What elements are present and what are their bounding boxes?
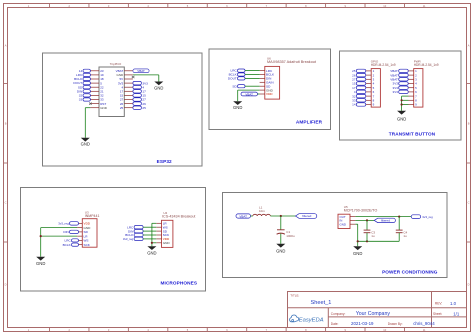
wire U5 GND to ground rail [355, 224, 399, 246]
ESP32 left net flags (GPIO nets) [73, 69, 90, 102]
wire U1 GND pin to ground (right) [133, 75, 159, 82]
svg-text:10m: 10m [259, 209, 265, 213]
svg-text:GND: GND [100, 106, 108, 110]
svg-text:chris_9044: chris_9044 [413, 321, 435, 326]
svg-text:MAX98357 Adafruit Breakout: MAX98357 Adafruit Breakout [267, 60, 317, 64]
U1 TinyPICO left pins and pin names [90, 69, 107, 110]
svg-text:INMP441: INMP441 [85, 214, 100, 218]
svg-text:A: A [5, 44, 7, 48]
svg-text:DIN: DIN [63, 230, 68, 234]
module U1 TinyPICO body [99, 62, 124, 116]
net flags LRC BCLK DOUT to U6 [228, 69, 260, 81]
svg-text:C: C [468, 201, 470, 205]
microphone U4 ICS-43434 Breakout body [162, 211, 196, 247]
MICROPHONES block outline [21, 188, 206, 292]
junction on J2 pin 9 wire [401, 103, 403, 105]
svg-text:filtered: filtered [381, 219, 390, 223]
svg-text:VBAT: VBAT [137, 69, 145, 73]
svg-text:3v3_reg: 3v3_reg [123, 237, 134, 241]
wire U5 IN to filtered flag [355, 219, 374, 221]
wire U6 GND pin to ground [238, 90, 260, 101]
ground symbol below J2 [397, 111, 406, 115]
net flags LRC DIN BCLK 3v3_reg to U4 [123, 225, 156, 241]
svg-text:C: C [5, 201, 7, 205]
svg-text:EasyEDA: EasyEDA [299, 318, 324, 324]
ESP32 right GPIO net flags [133, 85, 146, 110]
U4 pins and pin names [156, 222, 170, 246]
junction U3 LR/GND wire [40, 235, 42, 237]
svg-text:VBAT: VBAT [239, 214, 247, 218]
svg-text:ICS-43434 Breakout: ICS-43434 Breakout [162, 215, 195, 219]
net flag VBAT on U1 pin VBAT [133, 69, 149, 73]
junction U4 GND wire [151, 242, 153, 244]
svg-text:D: D [5, 283, 7, 287]
svg-text:25: 25 [142, 106, 146, 110]
wire U3 GND and LR pins to ground [41, 228, 77, 257]
EasyEDA logo [290, 315, 324, 324]
svg-text:Sheet:: Sheet: [433, 312, 442, 316]
svg-text:ESP32: ESP32 [157, 159, 172, 164]
header J2 PWR HDR-M-2.54_1x9 [414, 59, 439, 107]
net flag DIN to U3 SD [63, 230, 78, 234]
ground symbol below U5 [353, 246, 362, 250]
svg-text:1u: 1u [371, 234, 375, 238]
net flag SD to U6 [232, 84, 259, 88]
svg-text:3V3: 3V3 [393, 90, 399, 94]
svg-text:Date:: Date: [331, 322, 339, 326]
capacitor C3 1u [364, 220, 376, 241]
svg-text:1u: 1u [403, 234, 407, 238]
net flag VBAT to U6 VDD [241, 92, 260, 96]
svg-text:POWER CONDITIONING: POWER CONDITIONING [382, 269, 438, 274]
ground symbol below C1 [276, 244, 285, 248]
svg-text:2021-03-19: 2021-03-19 [351, 321, 374, 326]
svg-text:HDR-M-2.54_1x9: HDR-M-2.54_1x9 [414, 63, 439, 67]
svg-text:VDD: VDD [266, 92, 273, 96]
junction ground rail left [357, 240, 359, 242]
svg-text:B: B [468, 121, 470, 125]
net flag filtered (after L1) [296, 214, 317, 219]
net flag 3v3_reg output [411, 215, 433, 219]
svg-text:GND: GND [163, 241, 171, 245]
svg-text:SCK: SCK [84, 243, 91, 247]
junction at C3 top [366, 219, 368, 221]
junction at C1 top [280, 215, 282, 217]
ground symbol below U4 [147, 246, 156, 250]
wire U5 OUT to 3v3_reg flag [355, 216, 411, 218]
svg-text:Drawn By:: Drawn By: [388, 322, 403, 326]
ground symbol below U3 [36, 257, 45, 261]
J2 PWR net flags VBAT and 3V3 [390, 69, 408, 94]
svg-text:Company:: Company: [331, 312, 346, 316]
ESP32 module block outline [43, 53, 203, 166]
svg-text:D: D [468, 283, 470, 287]
POWER CONDITIONING block outline [223, 193, 448, 278]
svg-text:GND: GND [36, 261, 45, 266]
svg-text:GND: GND [353, 251, 362, 256]
svg-text:REV:: REV: [435, 302, 442, 306]
U5 pins and pin names [340, 215, 356, 227]
svg-text:1.0: 1.0 [450, 301, 457, 306]
net flag LRC to U3 WS [64, 239, 78, 243]
svg-text:GND: GND [233, 105, 242, 110]
svg-text:33: 33 [79, 98, 83, 102]
svg-text:TinyPICO: TinyPICO [110, 62, 122, 66]
J1 GPIO net flags [352, 69, 366, 107]
wires J2 pins 7-9 to ground [402, 96, 409, 111]
company field [331, 311, 391, 317]
inductor L1 10m [253, 206, 271, 217]
svg-text:SD: SD [232, 84, 237, 88]
title block frame [288, 292, 467, 328]
J1 GPIO pins 1-9 [366, 69, 375, 107]
svg-text:VBAT: VBAT [245, 92, 253, 96]
no-connect mark on U1 RST pin [89, 103, 91, 105]
net flag 3V3 on U1 [133, 81, 148, 85]
date and drawn by fields [331, 321, 435, 326]
svg-text:filtered: filtered [302, 214, 311, 218]
wire L1 to filtered net [270, 215, 295, 217]
svg-text:25: 25 [120, 106, 124, 110]
microphone U3 INMP441 body [82, 211, 99, 248]
svg-text:Sheet_1: Sheet_1 [311, 300, 332, 306]
svg-text:1/1: 1/1 [453, 311, 460, 316]
ground symbol right of U1 [154, 82, 163, 86]
svg-text:BCLK: BCLK [63, 243, 72, 247]
regulator U5 MCP1700-3002E/TO body [338, 205, 377, 229]
U3 pins and pin names [77, 222, 91, 247]
no-connect mark on U1 5V pin [132, 76, 135, 78]
junction on J2 pin 8 wire [401, 99, 403, 101]
svg-text:A: A [468, 44, 470, 48]
AMPLIFIER block outline [209, 49, 331, 130]
net flag 3v3_reg to U3 VDD [58, 222, 78, 226]
TRANSMIT BUTTON block outline [340, 51, 462, 140]
svg-text:3v3_reg: 3v3_reg [422, 215, 433, 219]
ground symbol below U1 [81, 138, 90, 142]
amplifier U6 MAX98357 Adafruit Breakout body [265, 56, 317, 99]
wire U1 GND pin to ground (left) [85, 108, 90, 138]
svg-text:TRANSMIT BUTTON: TRANSMIT BUTTON [389, 132, 436, 137]
svg-text:GND: GND [276, 248, 285, 253]
U6 pins and pin names [260, 69, 275, 96]
svg-text:AMPLIFIER: AMPLIFIER [296, 119, 323, 124]
svg-text:MCP1700-3002E/TO: MCP1700-3002E/TO [344, 209, 378, 213]
svg-text:B: B [5, 121, 7, 125]
rev field 1.0 [435, 301, 457, 306]
svg-text:HDR-M-2.54_1x9: HDR-M-2.54_1x9 [371, 63, 396, 67]
sheet field 1/1 [433, 311, 460, 316]
svg-text:GND: GND [81, 142, 90, 147]
header J1 GPIO HDR-M-2.54_1x9 [371, 59, 396, 107]
svg-text:DOUT: DOUT [228, 77, 237, 81]
svg-text:GND: GND [147, 250, 156, 255]
wire U4 LR and GND pins to ground [152, 223, 156, 246]
junction at C4 top [398, 216, 400, 218]
junction at C3 bottom [366, 240, 368, 242]
net flag VBAT input [236, 214, 253, 219]
svg-text:Your Company: Your Company [356, 311, 391, 317]
title field Sheet_1 [290, 294, 331, 306]
svg-text:GND: GND [340, 222, 346, 226]
net flag BCLK to U3 SCK [63, 243, 79, 247]
svg-text:14: 14 [352, 103, 356, 107]
svg-text:GND: GND [397, 116, 406, 121]
net flag filtered at U5 input [374, 218, 395, 222]
svg-text:TITLE:: TITLE: [290, 294, 299, 298]
svg-text:MICROPHONES: MICROPHONES [161, 280, 198, 285]
capacitor C4 1u [396, 217, 408, 242]
svg-text:1000u: 1000u [286, 234, 295, 238]
U1 TinyPICO right pins and pin names [116, 69, 133, 110]
svg-text:GND: GND [154, 85, 163, 90]
capacitor C1 1000u (polarized) [277, 216, 295, 244]
svg-text:3v3_reg: 3v3_reg [58, 222, 69, 226]
J2 PWR pins 1-9 [409, 69, 418, 107]
ground symbol below U6 [233, 101, 242, 105]
